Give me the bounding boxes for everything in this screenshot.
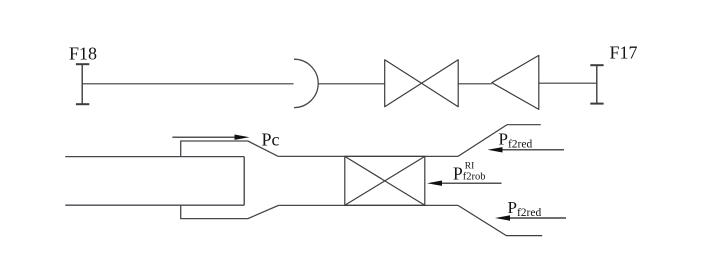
ejector inner pipe bottom wall — [65, 204, 244, 206]
ejector outer shell bottom — [181, 205, 279, 218]
svg-text:Pf2red: Pf2red — [499, 130, 533, 151]
arrow Pc — [172, 135, 249, 140]
valve box — [345, 156, 425, 205]
check valve triangle — [492, 55, 539, 109]
label Pf2rob — [453, 161, 485, 183]
nozzle arc — [294, 59, 318, 107]
arrow Pf2rob — [427, 181, 502, 186]
wire nozzle to valve — [319, 83, 385, 85]
throat top wall — [278, 155, 458, 157]
svg-text:RI: RI — [465, 161, 475, 171]
terminal F17 — [590, 65, 603, 104]
svg-text:Pc: Pc — [262, 129, 280, 149]
svg-text:F17: F17 — [610, 43, 638, 63]
terminal F18 — [76, 64, 89, 104]
arrow Pf2red top — [488, 147, 565, 152]
ejector inner pipe top wall — [65, 156, 244, 158]
outlet bottom slant and lip — [458, 205, 542, 235]
valve bowtie — [385, 60, 459, 107]
wire valve to check valve — [458, 83, 492, 85]
wire F18 to nozzle — [82, 83, 293, 85]
throat bottom wall — [279, 204, 459, 206]
svg-text:Pf2red: Pf2red — [508, 198, 542, 219]
wire check valve to F17 — [539, 82, 597, 84]
arrow Pf2red bottom — [495, 215, 566, 220]
ejector outer shell top — [181, 141, 279, 157]
outlet top slant and lip — [458, 125, 541, 157]
ejector inner pipe end cap — [243, 157, 245, 206]
svg-text:F18: F18 — [69, 44, 97, 64]
